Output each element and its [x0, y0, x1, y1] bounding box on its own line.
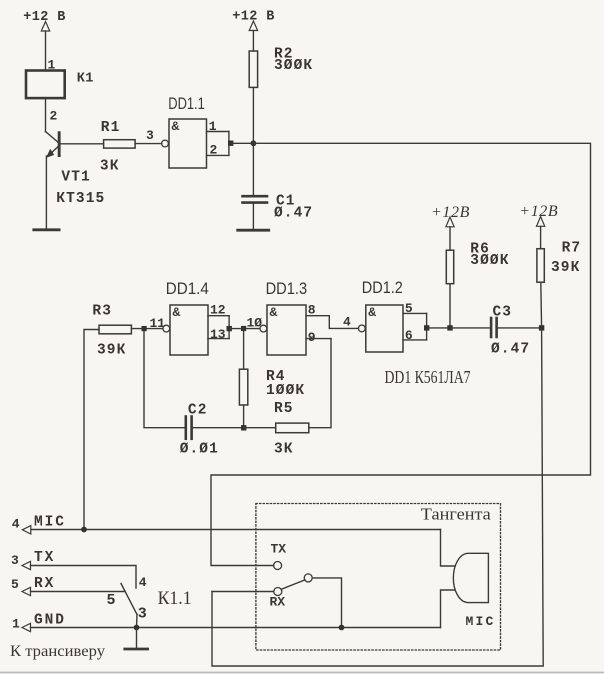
- ground (under K1.1): [125, 648, 148, 651]
- connector pin 3 TX: [11, 550, 55, 570]
- wire: C2 branch from R3 node: [144, 331, 186, 428]
- pin 11 label of DD1.4: [150, 316, 166, 331]
- connector pin 4 MIC: [12, 515, 66, 535]
- power arrow +12V (R2 branch): [249, 21, 257, 31]
- svg-text:5: 5: [107, 592, 116, 609]
- label DD1 К561ЛА7: [385, 367, 471, 387]
- svg-text:4: 4: [343, 314, 351, 329]
- svg-text:R3: R3: [92, 303, 112, 319]
- resistor R2: [249, 46, 313, 87]
- wire: node to R5: [244, 427, 276, 429]
- wire: TX to K1.1 contact 4: [31, 566, 137, 589]
- svg-text:+12В: +12В: [519, 203, 558, 220]
- svg-text:&: &: [270, 305, 278, 320]
- label KT315: [56, 191, 105, 207]
- wire: C3 to R7 node: [497, 327, 542, 329]
- svg-text:Ø.47: Ø.47: [491, 341, 530, 357]
- svg-text:3: 3: [138, 606, 147, 623]
- svg-text:39К: 39К: [97, 342, 126, 358]
- contact RX (tangenta): [274, 588, 282, 596]
- svg-text:1ØØК: 1ØØК: [266, 383, 305, 399]
- wire: C2 to R4/R5 node: [192, 427, 244, 429]
- svg-text:К1.1: К1.1: [158, 588, 192, 609]
- power arrow +12V (relay branch): [41, 22, 49, 32]
- svg-text:8: 8: [308, 303, 316, 318]
- wire: DD1.4 output to DD1.3 input: [229, 328, 260, 330]
- resistor R5: [274, 401, 309, 458]
- node: DD1.2 output junction: [424, 325, 429, 330]
- wire: MIC line: [31, 529, 441, 531]
- power +12V label (R2 branch): [232, 9, 275, 24]
- svg-text:RX: RX: [34, 576, 55, 592]
- svg-text:3: 3: [146, 128, 154, 143]
- wire: VT1 base to R1: [60, 143, 103, 145]
- svg-text:6: 6: [405, 328, 413, 343]
- wire: RX to K1.1 contact 5: [31, 591, 126, 593]
- pin 4 label of DD1.2: [343, 314, 351, 329]
- svg-text:КТ315: КТ315: [56, 191, 105, 207]
- svg-text:C3: C3: [493, 304, 513, 320]
- resistor R6: [446, 227, 509, 328]
- wire: DD1.2 pins 5-6 tied: [426, 313, 428, 340]
- power +12V label (R6 branch): [431, 204, 470, 221]
- node: C3/R7 junction: [539, 325, 544, 330]
- svg-text:&: &: [172, 119, 180, 134]
- svg-text:2: 2: [210, 143, 218, 158]
- svg-text:RX: RX: [270, 595, 286, 610]
- node: R2/DD1.1/C1 junction: [251, 140, 257, 146]
- svg-text:DD1.1: DD1.1: [168, 94, 205, 113]
- svg-text:3: 3: [11, 553, 19, 568]
- label VT1: [61, 170, 90, 186]
- label Тангента: [421, 505, 491, 524]
- wire: to ground: [136, 628, 138, 649]
- svg-text:1: 1: [12, 616, 20, 631]
- pin 2 label of K1: [50, 109, 58, 124]
- pin 5 of DD1.2: [403, 301, 427, 316]
- pin 1 of DD1.1: [207, 119, 229, 134]
- op-amp gate DD1.1: [162, 94, 207, 168]
- capacitor C1: [243, 194, 314, 222]
- wire: C1 to ground: [252, 203, 254, 230]
- gate DD1.3: [260, 279, 307, 355]
- resistor R1: [100, 120, 135, 174]
- tangenta dashed enclosure: [256, 504, 501, 651]
- wire: pivot to GND line: [312, 578, 341, 628]
- svg-text:TX: TX: [34, 550, 55, 566]
- wire: R1 to DD1.1 pin 3: [135, 143, 162, 145]
- wire: R3 left down to MIC line: [84, 330, 99, 530]
- wire: pin 8 to DD1.2 input: [329, 316, 358, 329]
- wire: DD1.4 pins 12-13 tied: [228, 316, 230, 339]
- node: DD1.1 output junction: [228, 141, 233, 146]
- svg-text:13: 13: [210, 327, 226, 342]
- svg-text:3ØØК: 3ØØК: [470, 253, 509, 269]
- switch K1.1 arm: [121, 584, 137, 628]
- node: R6/C3 junction: [447, 325, 452, 330]
- wire: R7 node down to RX loop: [212, 328, 543, 666]
- pin 5 label of K1.1: [107, 592, 116, 609]
- svg-text:C2: C2: [188, 402, 208, 418]
- svg-text:К трансиверу: К трансиверу: [10, 643, 105, 660]
- svg-text:3К: 3К: [274, 441, 294, 457]
- wire: MIC line down to microphone + terminal: [441, 530, 455, 567]
- pin 3 label of DD1.1: [146, 128, 154, 143]
- svg-text:Ø.Ø1: Ø.Ø1: [180, 441, 219, 457]
- svg-text:39К: 39К: [551, 260, 580, 276]
- pin 9 of DD1.3: [306, 330, 331, 345]
- svg-text:5: 5: [11, 577, 19, 592]
- contact TX (tangenta): [274, 562, 282, 570]
- wire: GND line up to microphone - terminal: [441, 590, 455, 628]
- svg-text:R5: R5: [274, 401, 294, 417]
- svg-text:&: &: [173, 305, 181, 320]
- microphone element: [453, 553, 495, 629]
- svg-text:5: 5: [405, 301, 413, 316]
- svg-text:MIC: MIC: [34, 515, 66, 531]
- pin 8 of DD1.3: [306, 303, 329, 318]
- svg-text:Ø.47: Ø.47: [274, 206, 313, 222]
- power +12V label (R7 branch): [519, 203, 558, 220]
- connector pin 1 GND: [12, 613, 66, 632]
- label K1.1: [158, 588, 192, 609]
- wire: R5 to DD1.3 pin 9: [309, 339, 331, 428]
- svg-text:VT1: VT1: [61, 170, 90, 186]
- svg-text:DD1 К561ЛА7: DD1 К561ЛА7: [385, 367, 471, 387]
- svg-text:4: 4: [12, 516, 20, 531]
- gate DD1.2: [358, 278, 403, 352]
- svg-text:3ØØК: 3ØØК: [274, 58, 313, 74]
- svg-text:1: 1: [209, 119, 217, 134]
- resistor R7: [537, 226, 581, 328]
- pin 12 of DD1.4: [208, 303, 229, 318]
- contact pivot (tangenta PTT): [304, 574, 312, 582]
- node: DD1.4 output junction: [227, 326, 232, 331]
- svg-text:R7: R7: [562, 241, 582, 257]
- connector pin 5 RX: [11, 576, 55, 596]
- pin 1 label of K1: [48, 58, 56, 73]
- node: MIC/R3 junction: [81, 527, 87, 533]
- node: R4 top junction: [241, 326, 246, 331]
- svg-text:3К: 3К: [100, 158, 120, 174]
- wire: DD1.1 output to R2/C1 node: [231, 142, 254, 144]
- svg-text:&: &: [368, 305, 376, 320]
- label RX (tangenta): [270, 595, 286, 610]
- wire: R6 node to C3: [450, 327, 491, 329]
- svg-text:Тангента: Тангента: [421, 505, 491, 524]
- svg-text:TX: TX: [271, 542, 287, 557]
- svg-text:GND: GND: [34, 613, 66, 629]
- resistor R3: [92, 303, 131, 358]
- pin 13 of DD1.4: [208, 327, 229, 342]
- power arrow +12V (R7 branch): [537, 217, 545, 227]
- ground (under VT1): [34, 228, 59, 231]
- pin 6 of DD1.2: [403, 328, 427, 343]
- pin 2 of DD1.1: [207, 143, 229, 158]
- pin 4 label of K1.1: [139, 575, 147, 590]
- resistor R4: [239, 329, 305, 428]
- capacitor C2: [180, 402, 219, 457]
- relay coil K1: [26, 71, 94, 99]
- wire: R3 to DD1.4 input: [131, 328, 163, 330]
- svg-text:4: 4: [139, 575, 147, 590]
- svg-text:12: 12: [210, 303, 226, 318]
- svg-text:MIC: MIC: [466, 614, 496, 629]
- pin 10 label of DD1.3: [247, 316, 263, 331]
- label TX (tangenta): [271, 542, 287, 557]
- svg-text:R1: R1: [101, 120, 121, 136]
- wire: DD1.2 output to R6 node: [427, 327, 450, 329]
- wire: GND line: [31, 627, 441, 629]
- svg-text:DD1.2: DD1.2: [362, 278, 403, 297]
- wire: +12V arrow to K1 coil: [45, 31, 47, 70]
- scan-edge artifact bottom: [0, 671, 604, 673]
- wire: arrow to R2: [252, 31, 254, 52]
- power arrow +12V (R6 branch): [446, 217, 454, 227]
- wire: K1 coil to VT1 collector: [45, 98, 47, 132]
- gate DD1.4: [163, 279, 209, 355]
- node: switch/GND junction: [339, 625, 345, 631]
- ground (under C1): [238, 229, 269, 232]
- capacitor C3: [491, 304, 530, 357]
- switch arm (tangenta PTT): [281, 580, 305, 589]
- wire: RX contact to left loop: [212, 591, 274, 593]
- transistor VT1: [46, 131, 61, 229]
- svg-text:9: 9: [308, 330, 316, 345]
- svg-text:К1: К1: [77, 72, 94, 87]
- pin 3 label of K1.1: [138, 606, 147, 623]
- wire: DD1.1 pins 1-2 tied: [228, 132, 230, 156]
- svg-text:DD1.3: DD1.3: [266, 279, 308, 298]
- power +12V label (relay branch): [23, 10, 66, 25]
- label К трансиверу: [10, 643, 105, 660]
- node: K1.1 common junction: [134, 625, 140, 631]
- wire: node to tangenta TX contact (right loop): [211, 143, 591, 565]
- svg-text:2: 2: [50, 109, 58, 124]
- svg-text:DD1.4: DD1.4: [166, 279, 209, 298]
- node: R3/C2 junction: [142, 326, 147, 331]
- node: C2/R4/R5 junction: [241, 425, 246, 430]
- wire: R2 down to C1: [252, 87, 254, 196]
